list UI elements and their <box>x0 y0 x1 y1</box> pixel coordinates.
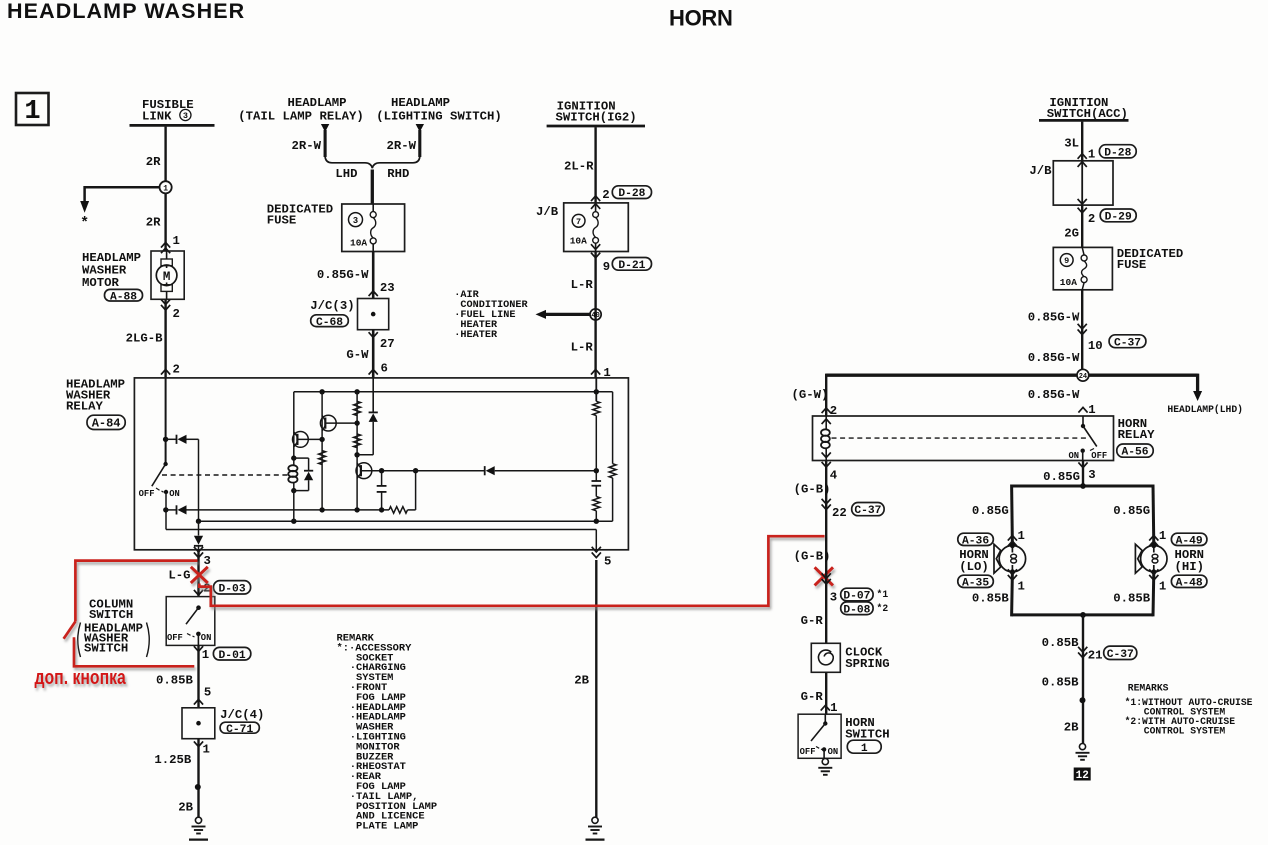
vertical wire Q2-R1 <box>321 392 323 510</box>
svg-text:RELAY: RELAY <box>66 400 104 414</box>
svg-text:D-28: D-28 <box>1104 147 1131 159</box>
wire 3L <box>1081 122 1083 161</box>
svg-text:10A: 10A <box>1060 277 1077 288</box>
power feed bar ACC <box>1039 119 1129 122</box>
svg-text:2R-W: 2R-W <box>291 139 321 153</box>
svg-text:0.85G-W: 0.85G-W <box>1028 388 1080 402</box>
svg-text:2B: 2B <box>574 674 589 688</box>
wire 2G <box>1081 205 1083 247</box>
svg-text:G-R: G-R <box>801 614 824 628</box>
pin 1 below J/C(4) <box>194 741 203 746</box>
svg-text:0.85G: 0.85G <box>972 504 1009 518</box>
brace joining LHD RHD feeds <box>325 157 420 168</box>
svg-text:4: 4 <box>830 469 838 483</box>
resistor R2b <box>354 434 361 448</box>
horn loop bottom rail <box>1012 613 1153 616</box>
svg-text:(G-W): (G-W) <box>792 388 829 402</box>
svg-text:2R: 2R <box>146 216 161 230</box>
internal rail 3 to pin 5 <box>166 529 596 531</box>
joint connector J/C(3) C-68 <box>358 299 389 330</box>
wire 0.85B to ground <box>1082 615 1084 744</box>
wire G-B down to clock spring <box>825 461 827 644</box>
svg-text:OFF: OFF <box>139 489 155 499</box>
branch down to horn relay pin 2 <box>825 374 827 416</box>
svg-text:10A: 10A <box>350 238 367 249</box>
svg-text:10A: 10A <box>570 236 587 247</box>
svg-text:RHD: RHD <box>387 167 409 181</box>
ground relay pin5 <box>592 817 598 823</box>
horn HI symbol A-49 A-48 <box>1141 546 1167 572</box>
wire from D1 down <box>198 439 200 521</box>
dedicated fuse box horn fuse 9 10A <box>1053 247 1112 289</box>
wire 0.85G-W acc <box>1081 290 1083 370</box>
svg-text:L-R: L-R <box>571 341 594 355</box>
branch arrow to headlamp LHD <box>1196 374 1199 391</box>
svg-text:1: 1 <box>1159 580 1166 594</box>
svg-text:A-36: A-36 <box>962 535 989 547</box>
svg-text:HEADLAMP: HEADLAMP <box>287 96 346 110</box>
svg-text:7: 7 <box>576 217 581 227</box>
svg-text:2: 2 <box>1088 212 1095 226</box>
svg-text:C-37: C-37 <box>1114 337 1141 349</box>
svg-text:G-R: G-R <box>801 690 824 704</box>
relay coil <box>293 458 295 465</box>
feed arrow wire 2R-W RHD <box>416 124 424 132</box>
svg-text:ON: ON <box>201 633 212 643</box>
resistor R1 <box>319 451 326 465</box>
svg-text:SWITCH: SWITCH <box>89 608 133 622</box>
svg-text:1: 1 <box>830 701 837 715</box>
horn HI branch upper <box>1152 485 1156 546</box>
svg-text:*1: *1 <box>877 589 889 600</box>
ground horn switch <box>822 759 828 765</box>
branch wire to other circuit with arrow <box>85 187 160 201</box>
svg-text:1: 1 <box>163 184 168 193</box>
svg-text:C-71: C-71 <box>226 724 253 736</box>
internal rail 2 <box>199 520 613 522</box>
connector label A-88 <box>105 289 143 301</box>
svg-text:D-07: D-07 <box>843 591 870 603</box>
svg-text:D-08: D-08 <box>843 604 870 616</box>
horn relay dashed line <box>832 437 1087 439</box>
svg-text:MOTOR: MOTOR <box>82 276 120 290</box>
svg-text:A-84: A-84 <box>92 417 121 431</box>
relay internal wire from pin 2 <box>165 378 167 464</box>
svg-text:ON: ON <box>169 489 180 499</box>
svg-text:21: 21 <box>1088 649 1103 663</box>
svg-text:3L: 3L <box>1064 137 1079 151</box>
svg-text:3: 3 <box>1088 468 1095 482</box>
wire from relay pin 5 to ground <box>595 560 597 817</box>
diode D4 <box>484 466 486 475</box>
svg-text:1: 1 <box>1088 403 1095 417</box>
svg-text:SWITCH: SWITCH <box>84 642 128 656</box>
svg-text:FUSE: FUSE <box>1117 258 1147 272</box>
page number box 1 <box>16 93 49 125</box>
svg-text:HEADLAMP WASHER: HEADLAMP WASHER <box>7 0 245 23</box>
junction to diode D1 <box>163 437 168 442</box>
output line y=470.7 with diode D4 <box>372 470 485 472</box>
horn switch box <box>798 714 841 758</box>
wire 2R to washer motor <box>164 193 166 251</box>
transistor Q3 <box>356 463 372 479</box>
svg-text:C-37: C-37 <box>1107 649 1134 661</box>
svg-text:(G-B): (G-B) <box>794 550 831 564</box>
resistor R6 <box>595 486 597 497</box>
capacitor C1 <box>381 471 383 486</box>
horn relay box A-56 <box>813 416 1114 461</box>
horn LO branch lower <box>1010 572 1014 617</box>
svg-text:FUSE: FUSE <box>267 214 297 228</box>
svg-text:SPRING: SPRING <box>845 657 889 671</box>
svg-text:2L-R: 2L-R <box>564 160 594 174</box>
relay coil vertical wire <box>293 392 295 458</box>
ground washer switch <box>195 817 201 823</box>
connector label A-84 <box>87 415 125 429</box>
horn switch contacts <box>824 714 826 723</box>
svg-text:OFF: OFF <box>167 633 183 643</box>
flyback diode across coil <box>294 457 309 459</box>
svg-text:3: 3 <box>830 591 837 605</box>
red note text dop knopka <box>35 666 127 688</box>
wire to dedicated fuse <box>371 170 374 205</box>
wire G-R to horn switch <box>825 672 827 714</box>
svg-text:A-88: A-88 <box>110 291 137 303</box>
diode D1 <box>176 435 178 444</box>
wire G-W to relay pin 6 <box>372 330 375 378</box>
svg-text:D-29: D-29 <box>1105 211 1132 223</box>
connector label 1 stadium <box>847 740 881 753</box>
svg-text:0.85G: 0.85G <box>1043 470 1080 484</box>
svg-text:SWITCH(IG2): SWITCH(IG2) <box>556 110 637 124</box>
svg-text:0.85B: 0.85B <box>156 674 194 688</box>
relay pin 5 <box>592 552 601 557</box>
svg-text:24: 24 <box>1079 373 1087 381</box>
clock spring spiral <box>818 650 833 665</box>
svg-text:3: 3 <box>183 111 188 121</box>
svg-text:HEADLAMP: HEADLAMP <box>391 96 450 110</box>
svg-text:2: 2 <box>602 188 609 202</box>
svg-text:A-49: A-49 <box>1176 535 1203 547</box>
svg-text:C-68: C-68 <box>316 317 343 329</box>
wire 0.85G-W <box>372 252 375 299</box>
wire L-G from relay pin 3 <box>197 550 199 597</box>
resistor R3 horizontal <box>389 507 408 514</box>
svg-text:A-48: A-48 <box>1176 577 1203 589</box>
splice dot horn ground wire <box>1080 697 1086 703</box>
vertical wire R2 chain <box>356 392 358 510</box>
pin 10 connector C-37 <box>1078 329 1087 334</box>
svg-text:J/C(4): J/C(4) <box>220 708 264 722</box>
red jumper wire to horn circuit <box>199 536 824 606</box>
svg-text:5: 5 <box>604 555 611 569</box>
svg-text:9: 9 <box>603 260 610 274</box>
svg-text:LINK: LINK <box>142 110 172 124</box>
svg-text:M: M <box>163 270 171 284</box>
svg-text:5: 5 <box>204 686 211 700</box>
svg-text:22: 22 <box>832 506 847 520</box>
ground id box 12 <box>1074 768 1091 781</box>
svg-text:1: 1 <box>24 97 40 127</box>
svg-text:2: 2 <box>173 307 180 321</box>
svg-text:1: 1 <box>1018 580 1025 594</box>
svg-text:1: 1 <box>1159 529 1166 543</box>
svg-text:SWITCH(ACC): SWITCH(ACC) <box>1047 107 1128 121</box>
horn LO branch upper <box>1010 485 1014 546</box>
svg-text:ON: ON <box>1068 451 1079 461</box>
svg-text:*2: *2 <box>877 603 889 614</box>
svg-text:*: * <box>80 215 89 232</box>
horn relay switch <box>1082 416 1084 426</box>
svg-text:1: 1 <box>861 743 868 755</box>
svg-text:2B: 2B <box>1064 721 1079 735</box>
svg-text:23: 23 <box>380 281 395 295</box>
column switch contacts OFF/ON <box>196 605 201 610</box>
svg-text:A-35: A-35 <box>962 577 989 589</box>
wire 0.85B <box>197 645 199 707</box>
svg-text:3: 3 <box>353 216 358 226</box>
svg-text:1: 1 <box>203 743 210 757</box>
wire 2LG-B to relay <box>164 299 166 378</box>
wire 2R from fusible link <box>164 127 166 182</box>
svg-text:A-56: A-56 <box>1121 447 1148 459</box>
dedicated fuse box with fuse 3 10A <box>342 204 405 252</box>
wire from ON contact down <box>165 492 167 530</box>
svg-text:6: 6 <box>381 362 388 376</box>
resistor R2a <box>354 401 361 415</box>
pin 21 connector C-37 <box>1078 652 1087 657</box>
svg-text:L-R: L-R <box>571 278 594 292</box>
node 24 splice circle <box>1077 369 1089 381</box>
diode D5 to pin 3 <box>198 521 200 535</box>
svg-text:(HI): (HI) <box>1175 560 1205 574</box>
svg-text:J/C(3): J/C(3) <box>310 299 354 313</box>
svg-text:J/B: J/B <box>1029 164 1052 178</box>
svg-text:·HEATER: ·HEATER <box>454 330 498 341</box>
thick branch arrow to AC fuel line heater <box>545 313 590 316</box>
svg-text:PLATE LAMP: PLATE LAMP <box>356 821 418 833</box>
wire 1.25B <box>197 739 199 818</box>
power feed bar <box>130 124 215 127</box>
relay switch OFF/ON <box>163 462 167 466</box>
power feed bar IG2 <box>547 125 645 128</box>
svg-text:REMARKS: REMARKS <box>1128 683 1169 694</box>
svg-text:CONTROL SYSTEM: CONTROL SYSTEM <box>1144 726 1226 737</box>
horn relay pin 4 <box>822 462 831 467</box>
pin 22 connector C-37 <box>822 504 831 509</box>
right branch resistor R5 <box>612 392 614 464</box>
svg-text:0.85G-W: 0.85G-W <box>1028 351 1080 365</box>
svg-text:0.85G-W: 0.85G-W <box>1028 311 1080 325</box>
svg-text:0.85G-W: 0.85G-W <box>317 268 369 282</box>
headlamp washer relay box A-84 <box>134 378 628 550</box>
svg-text:RELAY: RELAY <box>1118 428 1156 442</box>
diode D2 from pin 6 <box>372 378 374 412</box>
svg-text:D-01: D-01 <box>219 650 246 662</box>
svg-text:(TAIL LAMP RELAY): (TAIL LAMP RELAY) <box>238 110 363 124</box>
svg-text:C-37: C-37 <box>854 505 881 517</box>
transistor Q2 <box>320 415 336 431</box>
red X on G-B wire <box>815 567 833 585</box>
svg-text:OFF: OFF <box>800 747 816 757</box>
svg-text:(LIGHTING SWITCH): (LIGHTING SWITCH) <box>376 110 501 124</box>
horn loop top rail <box>1012 485 1153 488</box>
horn relay coil <box>822 419 831 424</box>
svg-text:2G: 2G <box>1064 227 1079 241</box>
relay pin 3 <box>194 552 203 557</box>
feed arrow wire 2R-W LHD <box>321 124 329 132</box>
ground horn <box>1079 744 1085 750</box>
svg-text:2R: 2R <box>146 155 161 169</box>
svg-text:HEADLAMP(LHD): HEADLAMP(LHD) <box>1167 404 1243 415</box>
svg-text:D-28: D-28 <box>618 188 645 200</box>
svg-text:D-03: D-03 <box>218 583 245 595</box>
svg-text:3: 3 <box>204 554 211 568</box>
svg-text:9: 9 <box>1064 256 1069 266</box>
headlamp washer motor A-88 <box>151 251 184 299</box>
svg-text:G-W: G-W <box>346 348 369 362</box>
svg-text:10: 10 <box>1088 339 1103 353</box>
svg-text:доп. кнопка: доп. кнопка <box>35 666 127 688</box>
splice dot <box>195 784 201 790</box>
svg-text:2R-W: 2R-W <box>386 139 416 153</box>
svg-text:27: 27 <box>380 337 395 351</box>
horn LO symbol A-36 A-35 <box>999 546 1025 572</box>
svg-text:LHD: LHD <box>335 167 357 181</box>
svg-text:2: 2 <box>173 363 180 377</box>
svg-text:ON: ON <box>828 747 839 757</box>
svg-text:1: 1 <box>202 648 209 662</box>
svg-text:HORN: HORN <box>669 6 733 31</box>
wire 0.85G from horn relay pin 3 <box>1078 462 1087 467</box>
joint connector J/C(4) C-71 <box>182 708 215 739</box>
svg-text:J/B: J/B <box>536 205 559 219</box>
node 1 splice circle <box>160 181 172 193</box>
svg-text:1: 1 <box>173 234 180 248</box>
capacitor C2 <box>595 471 597 481</box>
svg-text:0.85B: 0.85B <box>1113 592 1151 606</box>
wire R3 up to output line <box>415 471 417 510</box>
internal rail 1 with diode D3 <box>163 507 168 512</box>
wire 2L-R <box>594 127 596 203</box>
clock spring box <box>811 643 840 672</box>
relay pin 1 internal wire with resistor R4 <box>595 378 597 401</box>
svg-text:0.85G: 0.85G <box>1113 504 1150 518</box>
red bracket around column switch <box>75 561 197 622</box>
svg-text:(G-B): (G-B) <box>794 483 831 497</box>
relay internal top rail <box>294 391 613 393</box>
svg-text:1: 1 <box>1088 148 1095 162</box>
thick distribution line from node 24 <box>826 374 1077 377</box>
junction block J/B with fuse 7 10A <box>564 203 629 252</box>
node 40 splice circle <box>590 309 601 320</box>
svg-text:1: 1 <box>1018 529 1025 543</box>
connector label A-56 <box>1117 444 1153 457</box>
red X on L-G wire <box>191 567 208 583</box>
svg-text:D-21: D-21 <box>618 260 645 272</box>
red annotation group <box>64 536 833 666</box>
junction block J/B horn <box>1053 161 1113 205</box>
pin 3 connectors D-07 D-08 <box>822 579 831 584</box>
svg-text:0.85B: 0.85B <box>972 592 1010 606</box>
transistor Q1 <box>293 432 309 448</box>
svg-text:0.85B: 0.85B <box>1042 636 1080 650</box>
svg-text:12: 12 <box>1076 770 1089 782</box>
svg-text:2B: 2B <box>178 801 193 815</box>
svg-text:40: 40 <box>591 312 599 320</box>
pin 1 connector D-01 <box>194 646 203 651</box>
column switch box <box>166 597 215 646</box>
dashed control line to relay coil <box>162 474 290 476</box>
horn HI branch lower <box>1152 572 1156 617</box>
svg-text:0.85B: 0.85B <box>1042 676 1080 690</box>
svg-text:OFF: OFF <box>1091 451 1107 461</box>
svg-text:2LG-B: 2LG-B <box>126 332 164 346</box>
wire L-R <box>594 252 596 378</box>
svg-text:L-G: L-G <box>168 569 190 583</box>
svg-text:1.25B: 1.25B <box>154 753 192 767</box>
svg-text:(LO): (LO) <box>959 560 989 574</box>
